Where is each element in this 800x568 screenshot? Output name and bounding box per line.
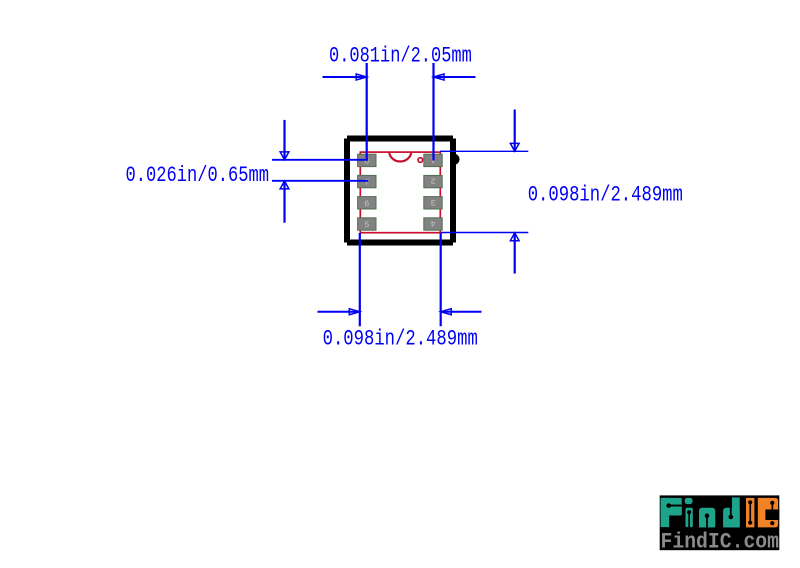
svg-text:0.098in/2.489mm: 0.098in/2.489mm: [528, 182, 683, 207]
svg-text:FindIC.com: FindIC.com: [661, 530, 780, 555]
svg-text:7: 7: [364, 178, 369, 188]
svg-text:0.026in/0.65mm: 0.026in/0.65mm: [126, 163, 270, 188]
svg-text:0.081in/2.05mm: 0.081in/2.05mm: [329, 44, 472, 69]
svg-text:2: 2: [430, 176, 435, 186]
svg-text:5: 5: [364, 220, 369, 230]
svg-text:4: 4: [430, 218, 435, 228]
svg-text:3: 3: [430, 197, 435, 207]
svg-text:6: 6: [364, 199, 369, 209]
svg-text:0.098in/2.489mm: 0.098in/2.489mm: [323, 327, 478, 352]
